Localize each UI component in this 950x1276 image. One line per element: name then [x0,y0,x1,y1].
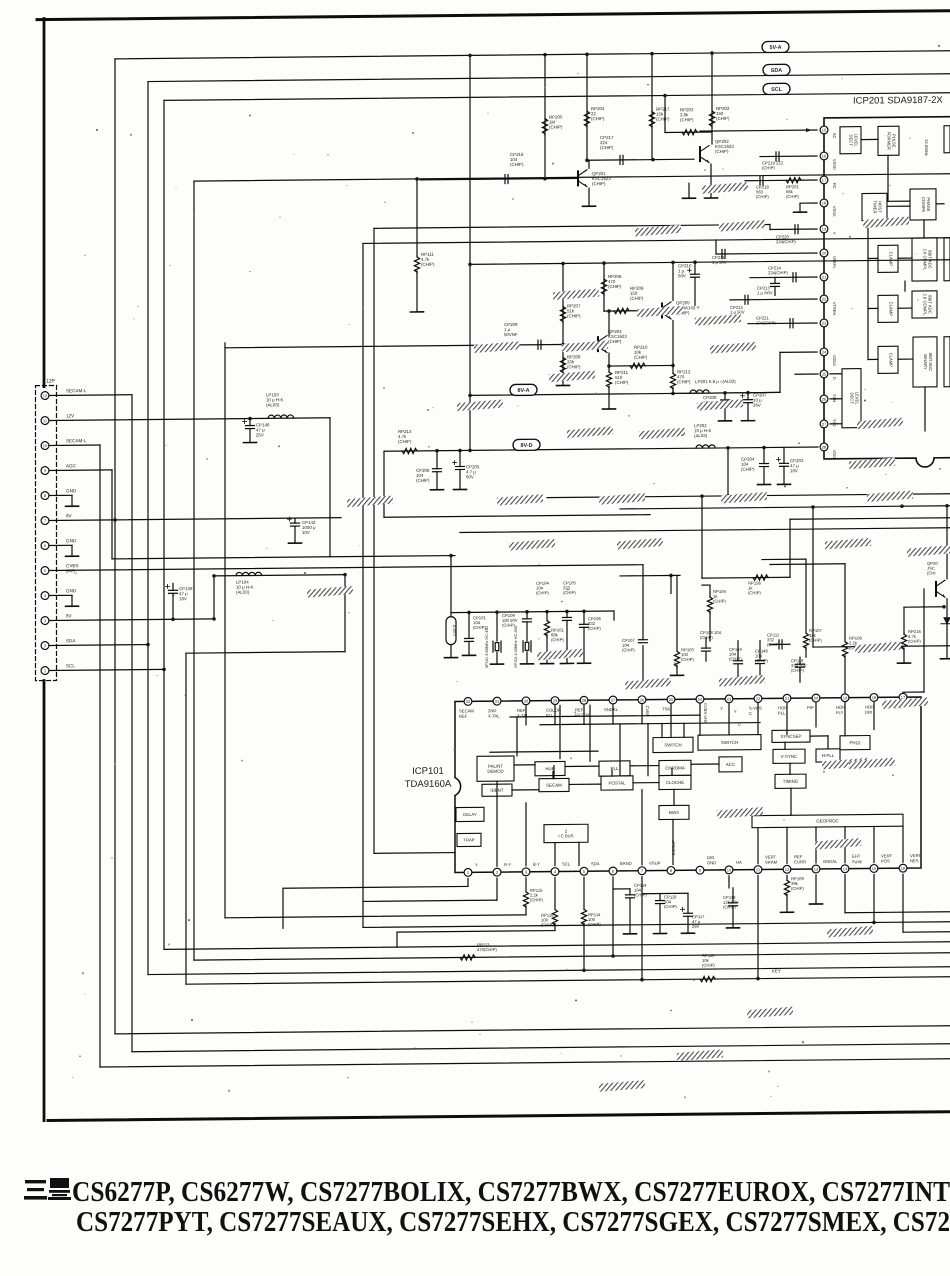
ICP101 bottom pin 10 [725,866,733,874]
connector pin 5 [41,567,49,575]
wire RP108 top [770,563,845,566]
svg-text:21: 21 [785,696,790,701]
svg-text:BAND: BAND [620,861,632,866]
wire RP216 top [904,606,944,608]
resistor RP209 [614,308,629,313]
ICP101 top pin 23 [725,695,733,703]
wire CHROMA down [671,768,673,775]
svg-text:29: 29 [553,698,558,703]
svg-text:5V-A: 5V-A [770,45,782,51]
capacitor CP214 [793,273,796,282]
wire CP142 [294,518,296,523]
ICP201 pin 28 [820,443,828,451]
hatch artifact 12 [567,426,613,438]
wire QP201 collector [588,160,590,168]
block 8BIT ADC COMPL 2 [912,291,937,318]
svg-text:8V: 8V [66,513,73,518]
svg-text:GND: GND [66,488,77,493]
resistor RP108 [842,642,847,658]
block HOST TIMER [862,193,887,220]
connector pin 11 [41,417,49,425]
wire 12V down x330 [329,418,331,557]
bus wire top y183 [194,174,950,181]
ground RP103 [671,674,684,676]
wire pin3 route y920 [225,915,526,918]
wire GEOPROC to pin x816 [815,827,817,863]
ICP201 pin 18 [820,199,828,207]
wire ICP201 pin24 [780,351,817,353]
svg-text:26: 26 [822,397,827,402]
capacitor CP204 [760,463,769,466]
block IDENT [482,784,512,796]
svg-text:GND: GND [66,588,77,593]
wire internal v590 [589,705,591,761]
wire pin drop x613 [612,705,614,724]
wire pin12 drop [786,875,788,880]
resistor RP217 [649,112,654,128]
svg-text:26: 26 [640,697,645,702]
wire pin14 out [845,912,950,913]
svg-text:21: 21 [822,275,827,280]
ICP101 bottom pin 3 [522,868,530,876]
connector pin 1 [41,667,49,675]
wire QP202 emitter [710,164,712,198]
wire 8V-A to ICP201 pin24 [779,352,781,392]
svg-text:GNDAL: GNDAL [823,859,838,864]
ground QP301 [941,658,950,660]
wire SECAM to POSTAL [569,783,601,785]
svg-text:15: 15 [872,866,877,871]
bus wire y537 [460,528,950,533]
wire CVBS drop to pin26 [642,565,644,640]
svg-text:V: V [832,232,837,235]
wire pin11 drop [757,876,759,979]
hatch artifact 17 [497,494,543,506]
wire pin12 SECAM-L [50,394,132,397]
block TIMING [775,774,806,788]
wire to pin7 [641,790,643,865]
block V-SYNC [773,749,805,763]
svg-text:10: 10 [43,443,48,448]
bus wire bottom y962 [194,953,950,960]
arrow pin15 [806,128,812,132]
wire PLL down [611,770,613,776]
block HUE [535,761,565,775]
wire AGC down [111,470,113,559]
wire HOST TIMER to PHASE COMPA [887,205,910,207]
hatch artifact 19 [721,492,767,504]
svg-text:SYNCSEP: SYNCSEP [781,734,802,739]
svg-text:20: 20 [822,251,827,256]
wire internal v517 [516,717,518,756]
transistor QP205 [661,304,663,318]
wire 8V-D [384,447,818,451]
connector CN101 12P dashed outline [36,385,57,680]
IC ICP101 TDA9160A body outline [455,697,921,873]
resistor RP213 [402,448,417,453]
capacitor CP106 [580,624,589,627]
hatch artifact 23 [825,538,871,550]
wire pin11 12V [50,418,330,421]
svg-text:VSUP: VSUP [649,861,661,866]
wire pin24 to SWITCH2 [699,704,701,735]
svg-text:19: 19 [822,227,827,232]
svg-text:25: 25 [822,372,827,377]
ground RP211 [603,408,616,410]
svg-text:GEOPROC: GEOPROC [816,818,838,823]
svg-text:CLAMP: CLAMP [889,302,894,317]
ground QP201 [583,205,596,207]
capacitor CP219 [776,152,779,161]
ICP201 pin 22 [820,295,828,303]
resistor RP201 [786,178,801,183]
block SWITCH 1 [653,737,693,752]
diode DP301 [941,618,950,624]
ground pin18 [794,211,807,213]
ICP101 top pin 22 [754,695,762,703]
hatch artifact 2 [719,220,765,232]
hatch artifact 31 [717,807,763,819]
wire pin1 down [282,888,284,928]
ICP101 bottom pin 6 [609,867,617,875]
ground CP203 [778,483,791,485]
svg-text:BINARY: BINARY [923,354,928,370]
wire RP103 [676,575,678,651]
wire HUE down [552,772,554,779]
svg-text:CVBS-VHS: CVBS-VHS [703,703,708,724]
svg-text:27: 27 [611,698,616,703]
ground CP106 [578,662,591,664]
wire pin drop x642 [641,705,643,724]
svg-text:13: 13 [814,867,819,872]
node 8V-A [468,394,472,398]
wire A-DET bottom [450,645,452,658]
hatch artifact 10 [457,399,503,411]
wire CP111 [770,643,790,645]
block TRAP [457,833,481,846]
wire pin25 to SWITCH1 [670,704,672,737]
svg-text:CS7277PYT, CS7277SEAUX, CS7277: CS7277PYT, CS7277SEAUX, CS7277SEHX, CS72… [76,1206,950,1238]
resistor RP207 [560,306,565,322]
wire GEOPROC to pin x903 [902,826,904,862]
hatch artifact 35 [677,1049,723,1061]
wire pin7 drop [641,877,643,980]
ICP101 bottom pin 2 [493,868,501,876]
wire demod to pin2 [496,781,498,866]
svg-text:2.8 COMPL: 2.8 COMPL [923,248,928,271]
hatch artifact 22 [617,538,663,550]
wire ICP201 pin16 [760,155,817,158]
ICP101 top pin 26 [638,696,646,704]
svg-text:TRAP: TRAP [463,837,474,842]
wire CLAMP2 to ADC2 [898,307,912,309]
block PULSE FORMER [878,126,899,155]
transistor QP201 [577,171,579,185]
hatch artifact 28 [719,675,765,687]
wire CP206 [436,451,438,469]
wire cap cluster stub [642,892,688,894]
node CP148 [248,417,252,421]
wire ICP201 pin22 [730,298,817,301]
wire QP204 emitter [608,353,610,366]
wire RP210 line [609,364,673,367]
wire ICP201 pin17 [745,179,817,182]
ground CP206 [431,489,444,491]
capacitor CP206 [433,469,442,472]
wire cluster rail y617 [451,611,614,613]
resistor RP205 [542,119,547,135]
wire pin2 drop [496,878,498,900]
svg-text:VDD: VDD [832,450,837,459]
wire XP101 [496,612,498,641]
block CLAMP 1 [878,245,898,272]
svg-text:12: 12 [785,867,790,872]
wire pin3 8V [50,619,214,621]
wire RP203 drop [664,96,666,133]
ICP201 pin 21 [820,273,828,281]
bus wire vertical x374 [373,228,375,853]
wire CP144 [737,641,739,661]
resistor RP107 [803,633,808,649]
wire CP138 [172,583,174,590]
svg-text:SCL: SCL [771,87,782,93]
svg-text:32: 32 [466,699,471,704]
svg-text:16: 16 [901,866,906,871]
wire BIAS to pin8 [672,819,674,864]
capacitor CP142 [291,523,300,526]
capacitor CP205 [456,466,465,469]
svg-text:24: 24 [822,350,827,355]
svg-text:POSTAL: POSTAL [609,780,627,785]
wire CP204 [763,448,765,464]
hatch artifact 30 [822,758,868,770]
wire x345 down [344,575,346,652]
svg-text:XP102 4.43MHz HC-49U: XP102 4.43MHz HC-49U [514,625,518,668]
svg-text:25: 25 [669,697,674,702]
svg-text:SWITCH: SWITCH [721,740,738,745]
wire bus jog to pin19 [769,224,771,229]
hatch artifact 29 [855,642,901,654]
inductor LP103 [268,415,294,418]
svg-text:PH12: PH12 [850,740,862,745]
wire pin drop x555 [554,706,556,725]
wire RP206 [603,263,605,311]
resistor RP216 [901,634,906,650]
wire stub x671 [670,575,672,593]
wire pin18 drop [873,702,875,729]
wire pin26 to LEVEL DECT [830,398,842,400]
wire SYNCSEP to H-PLL [810,735,828,737]
wire CP203 [783,447,785,463]
ground RP216 [898,662,911,664]
bus wire vertical x186 [185,653,187,984]
wire pin1 SCL [50,669,164,670]
svg-text:SNDAL: SNDAL [604,707,619,712]
svg-text:PAL/NTDEMOD: PAL/NTDEMOD [487,764,503,774]
capacitor CP116 [796,664,805,667]
svg-text:16: 16 [822,154,827,159]
wire pin1 drop [467,878,469,886]
bus wire vertical x132 [131,395,133,1052]
ICP101 bottom pin 11 [754,866,762,874]
block 8BIT ADC COMPL 1 [912,238,937,281]
ICP101 bottom pin 4 [551,868,559,876]
ICP101 top pin 17 [899,693,907,701]
block PALNT DEMOD [477,756,514,781]
wire pin 8 to ground [50,494,72,496]
wire V813 [812,507,814,647]
bus wire vertical x100 [99,445,101,1067]
ground RP208 [557,384,570,386]
svg-text:Y: Y [720,706,723,711]
wire to CLAMP1 [868,257,878,259]
block GEOPROC [752,814,903,827]
capacitor CP211 [722,249,725,258]
svg-text:VSSA: VSSA [832,206,837,217]
hatch artifact 24 [907,545,950,557]
ground A-DET [445,657,458,659]
capacitor CP220 [795,225,798,234]
hatch artifact 13 [639,428,685,440]
border frame bottom [48,1112,950,1121]
resistor RP202 [709,111,714,127]
wire QP301 collector [946,506,948,579]
bus wire bottom y986 [186,977,950,984]
ICP101 top pin 25 [667,696,675,704]
ICP101 bottom pin 16 [899,864,907,872]
capacitor CP119 [729,903,738,906]
wire bus jog to pin20 [715,240,717,254]
block DELAY [456,807,484,821]
svg-text:A-DET: A-DET [452,625,456,637]
wire pin7 8V [50,518,341,521]
capacitor CP107 [639,640,648,643]
svg-text:23: 23 [727,696,732,701]
hatch artifact 26 [537,649,583,661]
wire CP207 [747,393,749,400]
wire TIMING to GEOPROC [790,788,792,815]
wire phase to adc1 [923,220,925,238]
svg-text:B-Y: B-Y [533,862,540,867]
resistor RP114 [581,909,586,925]
svg-text:19: 19 [843,695,848,700]
ground XP101 [491,663,504,665]
capacitor CP114 [626,895,635,898]
wire pin 6 to ground [50,544,72,546]
wire to SWITCH1 a [661,724,663,738]
hatch artifact 39 [882,697,928,709]
svg-text:2.8 COMPL: 2.8 COMPL [923,293,928,316]
hatch artifact 20 [867,490,913,502]
svg-text:SCL: SCL [562,861,571,866]
wire CP118 [659,894,661,901]
resistor RP204 [584,111,589,127]
wire ICP201 pin23 [748,322,817,325]
wire pin16 out [903,931,950,933]
wire CLAMP3 to ADC3 [898,358,912,360]
wire pin6 drop [612,877,614,956]
resistor RP116 [552,910,557,926]
svg-text:RC: RC [832,183,837,189]
wire A-DET top [450,556,452,617]
IC ICP201 body outline [824,117,950,468]
block PLL [599,761,630,776]
node RP111 top [415,177,419,181]
ground CP207 [742,420,755,422]
bus wire vertical x115 [114,59,116,1034]
wire RP202 [711,53,713,144]
wire pin5 CVBS [50,565,643,571]
inductor LP202 [696,445,715,448]
svg-text:VTREH: VTREH [832,302,837,316]
svg-text:YC2: YC2 [832,419,837,428]
crystal XP102 [522,641,524,652]
svg-text:17: 17 [901,695,906,700]
block LEVEL DECT [840,127,861,154]
wire RP107 top [762,558,806,560]
component A-DET resonator [446,617,456,645]
connector pin 7 [41,517,49,525]
wire CP104 cap [566,611,568,617]
svg-text:PIP: PIP [807,705,814,710]
resistor RP136 [753,575,768,580]
wire V728 [727,448,729,496]
block H-PLL [816,749,840,762]
wire rail end stub [613,611,615,620]
svg-text:8V: 8V [66,613,73,618]
wire pin2 route [363,900,497,901]
hatch artifact 1 [635,225,681,237]
svg-text:SECAM: SECAM [546,783,562,788]
capacitor CP218 [760,176,763,185]
ground QP202 [705,197,718,199]
svg-text:H-PLL: H-PLL [822,753,835,758]
wire PHASE COMPA out [936,203,944,205]
svg-text:HUE: HUE [545,766,554,771]
wire CP106 cap [583,611,585,624]
resistor RP206 [601,279,606,295]
bus wire vertical x225 [224,343,226,918]
ground RP109 [781,911,794,913]
wire CP216 line [420,178,578,180]
block PHASE COMPA [910,189,936,220]
wire pin17 E-W [903,691,924,693]
svg-text:SDA: SDA [591,861,600,866]
ICP101 bottom pin 9 [696,866,704,874]
wire RP212 [672,365,674,373]
net tag 8V-A [510,384,537,395]
capacitor CP210 [691,274,700,277]
ICP201 pin 23 [820,319,828,327]
connector pin 12 [41,392,49,400]
wire 8V-D left drop [383,451,385,517]
wire HUE to PLL [565,765,599,767]
wire GEOPROC to pin x758 [757,828,759,864]
wire QP204 collector [608,311,610,335]
border frame left lower [43,681,46,1121]
svg-text:8V-D: 8V-D [521,443,533,449]
wire CLAMP1 to ADC1 [898,257,912,259]
svg-text:22: 22 [756,696,761,701]
bus wire top y232 [374,224,770,228]
block SECAM [539,778,569,791]
net tag SCL [763,83,790,94]
wire PLL to CHROMA [630,765,659,767]
wire pin drop x526 [525,706,527,725]
connector pin 3 [41,617,49,625]
wire pin1 route [283,886,468,888]
bus wire vertical x164 [163,100,165,949]
